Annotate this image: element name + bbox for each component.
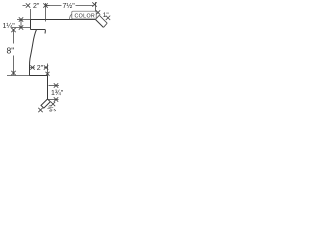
arrow X 1.25in top: [19, 17, 23, 21]
arrow X hem dim lower left: [38, 108, 42, 112]
arrow X bottom 2in right: [44, 65, 48, 69]
dimension line 8in vertical dashed by label: [13, 29, 15, 75]
arrow X 7.5in right: [92, 2, 96, 6]
COLOR callout box: [72, 11, 96, 19]
extension line x45 up crossing face: [45, 3, 47, 22]
arrow X 2in top right shared 7.5in left: [43, 3, 47, 7]
arrow X 2in top left: [26, 3, 30, 7]
svg-text:1¾": 1¾": [51, 90, 64, 97]
dimension line 1.25in vertical: [20, 20, 22, 28]
arrow X 1in lower: [106, 16, 110, 20]
extension tick at kick start 1in dim: [96, 15, 100, 19]
extension line x95 right end: [95, 2, 97, 11]
arrow X hem dim upper right: [51, 102, 55, 106]
profile sloped fascia 8in: [30, 30, 37, 76]
svg-text:8": 8": [7, 46, 15, 56]
arrow X 1.75in lower: [54, 97, 58, 101]
arrow X 1in upper: [96, 10, 100, 14]
dimension line 1in parallel to kick: [99, 15, 107, 23]
svg-text:1": 1": [103, 12, 110, 19]
svg-text:7½": 7½": [63, 2, 76, 10]
profile bottom kick 2in: [30, 75, 48, 77]
arrow X 1.25in bottom: [19, 25, 23, 29]
COLOR callout leader: [70, 14, 73, 19]
svg-text:1¼": 1¼": [3, 23, 16, 30]
extension tick at kick end 1in dim: [104, 23, 108, 27]
profile short horizontal 2in shelf: [31, 30, 46, 34]
arrow X 1.75in upper: [54, 83, 58, 87]
profile bottom vertical 1.75in: [47, 76, 49, 100]
svg-text:2": 2": [37, 65, 44, 72]
arrow X 8in top: [11, 28, 15, 32]
profile top face 7.5in: [31, 19, 96, 21]
arrow X bottom 2in left: [30, 65, 34, 69]
dimension line 2in bottom: [30, 67, 47, 69]
arrow X 8in bottom: [11, 71, 15, 75]
dimension line 2in top: [23, 5, 50, 7]
profile bottom 45deg hem 5/8in: [41, 99, 50, 108]
extension line right vertical for bottom 2in dim: [47, 64, 49, 76]
svg-text:2": 2": [33, 3, 40, 10]
extension line bottom left for 8in dim: [7, 75, 30, 77]
dimension line 7.5in top: [46, 5, 93, 7]
svg-text:COLOR: COLOR: [75, 13, 96, 19]
extension line y28 for 1.25in and 8in dims: [12, 27, 31, 29]
profile left vertical drop 1.25in: [30, 20, 32, 30]
profile 45deg kick 1in at right end: [96, 20, 104, 28]
extension line bottom for 1.75in dim: [48, 99, 59, 101]
arrow X at bottom corner of 2in ext: [46, 72, 50, 76]
extension line top left for 1.25in dim: [17, 19, 31, 21]
extension line x31 up from profile: [30, 9, 32, 20]
dimension stub 1.75in upper: [49, 85, 60, 87]
